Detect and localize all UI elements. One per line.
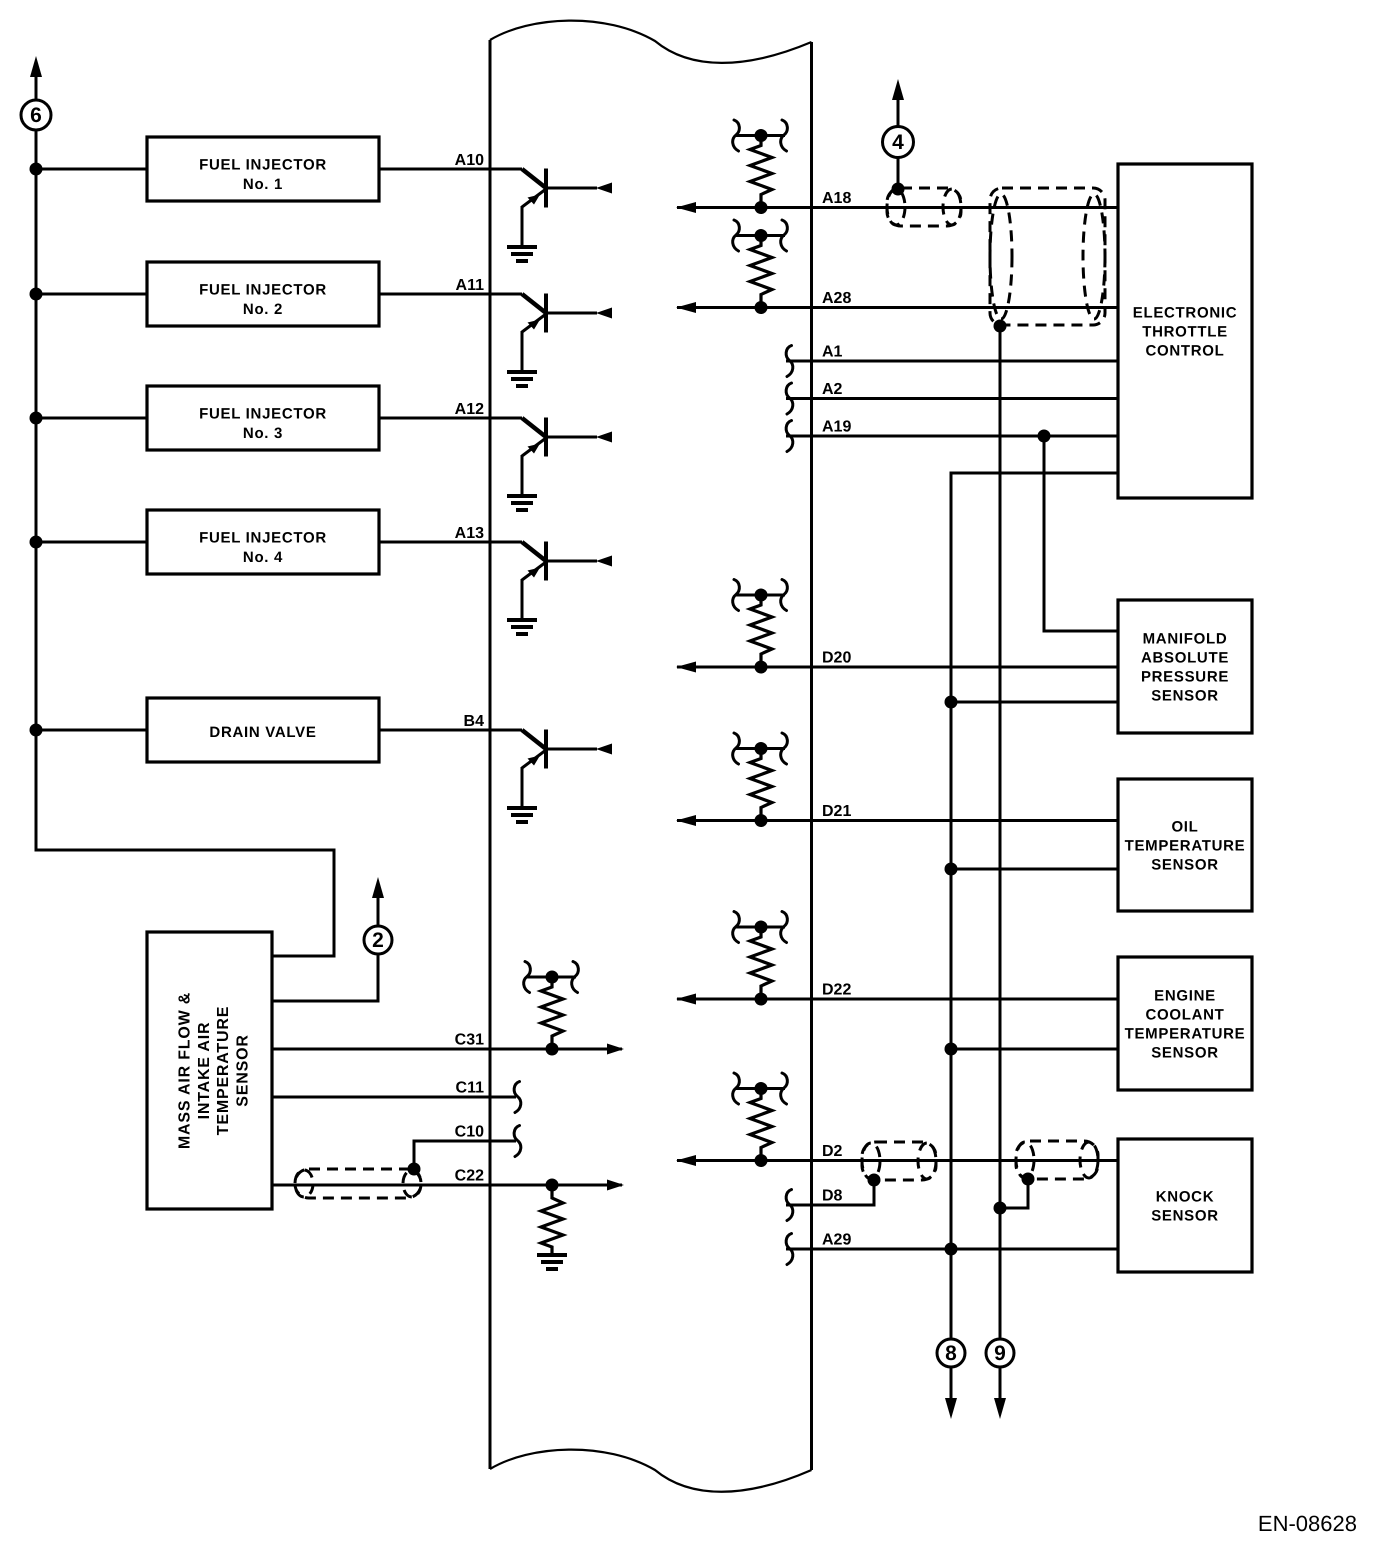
wire ECT sensor return: [951, 1048, 1118, 1051]
shield on wires A18/A28 at ETC: [990, 188, 1105, 325]
wire ETC ground lead elbow: [951, 473, 1118, 1339]
svg-text:FUEL INJECTOR: FUEL INJECTOR: [199, 157, 327, 174]
svg-text:SENSOR: SENSOR: [1151, 857, 1219, 874]
junction shield drain at node9 line: [994, 1202, 1007, 1215]
wire shield drain vertical to node 9: [999, 326, 1002, 1339]
junction shield to drain wire: [994, 320, 1007, 333]
shield on wire D2 left: [862, 1142, 936, 1180]
svg-text:C11: C11: [456, 1080, 485, 1097]
wire D22: [677, 998, 1118, 1001]
junction rail-drainvalve: [30, 724, 43, 737]
svg-text:INTAKE AIR: INTAKE AIR: [196, 1022, 213, 1120]
box oil temperature sensor: [1118, 779, 1252, 911]
svg-text:ENGINE: ENGINE: [1154, 988, 1216, 1005]
svg-text:9: 9: [994, 1342, 1006, 1365]
svg-text:C10: C10: [455, 1124, 484, 1141]
svg-text:C22: C22: [455, 1168, 484, 1185]
svg-text:A1: A1: [822, 344, 843, 361]
wire A28: [677, 306, 1118, 309]
transistor driver B4 with ground: [507, 730, 612, 823]
svg-text:TEMPERATURE: TEMPERATURE: [1125, 1026, 1246, 1043]
svg-text:No. 1: No. 1: [243, 176, 283, 193]
wire A19 branch down to MAP sensor: [1044, 436, 1118, 631]
svg-text:A29: A29: [822, 1232, 851, 1249]
svg-text:TEMPERATURE: TEMPERATURE: [215, 1006, 232, 1135]
shield on wire C22: [295, 1169, 421, 1198]
box electronic throttle control: [1118, 164, 1252, 498]
transistor driver A12 with ground: [507, 418, 612, 511]
junction OIL return: [945, 863, 958, 876]
junction knock shield: [1022, 1173, 1035, 1186]
node 9 circle: [986, 1339, 1014, 1367]
wire MAF to node 2: [272, 897, 378, 1001]
junction A29: [945, 1243, 958, 1256]
wire D2: [677, 1159, 1118, 1162]
ECM band torn top edge: [490, 21, 812, 63]
svg-text:No. 2: No. 2: [243, 301, 283, 318]
wire A2: [786, 397, 1118, 400]
box knock sensor: [1118, 1139, 1252, 1272]
resistor pull-up on D20: [733, 580, 788, 674]
svg-text:FUEL INJECTOR: FUEL INJECTOR: [199, 406, 327, 423]
wire left power rail: [36, 73, 334, 956]
svg-text:2: 2: [372, 929, 384, 952]
arrow left end A28: [676, 302, 696, 313]
box fuel injector no.1: [147, 137, 379, 201]
svg-text:6: 6: [30, 104, 42, 127]
node 4 circle: [883, 127, 914, 158]
svg-text:4: 4: [892, 131, 904, 154]
resistor pull-up on D2: [733, 1073, 788, 1167]
wire D21: [677, 819, 1118, 822]
svg-text:PRESSURE: PRESSURE: [1141, 669, 1229, 686]
wire rail to drain valve: [36, 729, 147, 732]
svg-text:D22: D22: [822, 982, 851, 999]
node 8 circle: [937, 1339, 965, 1367]
wire C11: [272, 1096, 516, 1099]
break symbol A2: [786, 383, 793, 414]
svg-text:D21: D21: [822, 803, 851, 820]
resistor pull-up on A18: [733, 120, 788, 214]
node 6 circle: [21, 100, 51, 130]
resistor pull-up on A28: [733, 220, 788, 314]
wire C31: [272, 1048, 622, 1051]
break symbol D8: [786, 1190, 793, 1221]
svg-text:FUEL INJECTOR: FUEL INJECTOR: [199, 530, 327, 547]
transistor driver A13 with ground: [507, 542, 612, 635]
svg-text:A12: A12: [455, 401, 484, 418]
svg-text:No. 4: No. 4: [243, 549, 283, 566]
svg-text:ABSOLUTE: ABSOLUTE: [1141, 650, 1229, 667]
wire C22: [272, 1184, 622, 1187]
wire fuel injector no.1 to transistor A10: [379, 168, 522, 171]
svg-text:SENSOR: SENSOR: [1151, 1045, 1219, 1062]
svg-text:CONTROL: CONTROL: [1145, 343, 1224, 360]
svg-text:D2: D2: [822, 1143, 843, 1160]
wire D20: [677, 666, 1118, 669]
svg-text:C31: C31: [455, 1032, 484, 1049]
svg-text:8: 8: [945, 1342, 957, 1365]
shield on wire D2 at knock sensor: [1016, 1141, 1098, 1179]
ECM band right edge: [810, 42, 813, 1470]
resistor pull-up on D21: [733, 733, 788, 827]
svg-text:A11: A11: [456, 277, 485, 294]
svg-text:A18: A18: [822, 190, 851, 207]
junction A19 to MAP branch: [1038, 430, 1051, 443]
ECM band torn bottom edge: [490, 1450, 812, 1492]
resistor on C31: [524, 962, 579, 1056]
wire A29: [786, 1248, 1118, 1251]
transistor driver A10 with ground: [507, 169, 612, 262]
node 2 circle: [364, 926, 392, 954]
svg-text:COOLANT: COOLANT: [1145, 1007, 1224, 1024]
break symbol A29: [786, 1234, 793, 1265]
wire knock shield to node 9 line: [1000, 1180, 1028, 1208]
svg-text:A28: A28: [822, 290, 851, 307]
svg-text:SENSOR: SENSOR: [1151, 688, 1219, 705]
wire rail to fuel injector no.3: [36, 417, 147, 420]
svg-text:KNOCK: KNOCK: [1156, 1189, 1215, 1206]
box engine coolant temperature sensor: [1118, 957, 1252, 1090]
svg-text:SENSOR: SENSOR: [234, 1034, 251, 1106]
wire node 8 arrow: [950, 1367, 953, 1400]
wire node 4 to A18 shield: [897, 96, 900, 188]
arrow up node 4: [892, 79, 904, 100]
junction rail-injector1: [30, 163, 43, 176]
svg-text:OIL: OIL: [1171, 819, 1198, 836]
shield on wire A18 small: [887, 188, 961, 226]
wire D8: [786, 1181, 874, 1205]
break symbol C11: [514, 1082, 521, 1113]
arrow up rail top: [30, 56, 42, 77]
box fuel injector no.3: [147, 386, 379, 450]
resistor C22 to ground: [537, 1179, 567, 1270]
junction D8-shield: [868, 1174, 881, 1187]
junction rail-injector4: [30, 536, 43, 549]
wire node 9 arrow: [999, 1367, 1002, 1400]
svg-text:FUEL INJECTOR: FUEL INJECTOR: [199, 282, 327, 299]
wire fuel injector no.2 to transistor A11: [379, 293, 522, 296]
svg-text:A19: A19: [822, 419, 851, 436]
junction node4-shield: [892, 183, 905, 196]
junction MAP return: [945, 696, 958, 709]
wire drain valve to transistor B4: [379, 729, 522, 732]
svg-text:ELECTRONIC: ELECTRONIC: [1133, 305, 1238, 322]
svg-text:MASS AIR FLOW &: MASS AIR FLOW &: [177, 992, 194, 1149]
arrow left end D2: [676, 1155, 696, 1166]
break symbol A19: [786, 421, 793, 452]
ECM band left edge: [489, 40, 492, 1469]
junction rail-injector2: [30, 288, 43, 301]
wire fuel injector no.3 to transistor A12: [379, 417, 522, 420]
box fuel injector no.4: [147, 510, 379, 574]
break symbol C10: [514, 1126, 521, 1157]
svg-text:TEMPERATURE: TEMPERATURE: [1125, 838, 1246, 855]
box manifold absolute pressure sensor: [1118, 600, 1252, 733]
svg-text:B4: B4: [464, 713, 485, 730]
transistor driver A11 with ground: [507, 294, 612, 387]
svg-text:MANIFOLD: MANIFOLD: [1143, 631, 1228, 648]
arrow up node 2: [372, 877, 384, 898]
wire rail to fuel injector no.1: [36, 168, 147, 171]
svg-text:DRAIN VALVE: DRAIN VALVE: [209, 724, 316, 741]
svg-text:EN-08628: EN-08628: [1258, 1511, 1357, 1536]
wire MAP sensor return: [951, 701, 1118, 704]
break symbol A1: [786, 346, 793, 377]
junction ECT return: [945, 1043, 958, 1056]
svg-text:SENSOR: SENSOR: [1151, 1208, 1219, 1225]
svg-text:THROTTLE: THROTTLE: [1142, 324, 1228, 341]
svg-text:A2: A2: [822, 381, 843, 398]
wire A19: [786, 435, 1118, 438]
junction rail-injector3: [30, 412, 43, 425]
svg-text:D8: D8: [822, 1188, 843, 1205]
junction C10-shield: [408, 1163, 421, 1176]
arrow left end A18: [676, 202, 696, 213]
resistor pull-up on D22: [733, 912, 788, 1006]
box mass air flow & intake air temperature sensor: [147, 932, 272, 1209]
wire A1: [786, 360, 1118, 363]
wire rail to fuel injector no.2: [36, 293, 147, 296]
svg-text:A13: A13: [455, 525, 484, 542]
box fuel injector no.2: [147, 262, 379, 326]
arrow left end D20: [676, 662, 696, 673]
arrow left end D22: [676, 994, 696, 1005]
svg-text:A10: A10: [455, 152, 484, 169]
svg-text:D20: D20: [822, 650, 851, 667]
svg-text:No. 3: No. 3: [243, 425, 283, 442]
wire A18: [677, 206, 1118, 209]
wire fuel injector no.4 to transistor A13: [379, 541, 522, 544]
wire rail to fuel injector no.4: [36, 541, 147, 544]
arrow left end D21: [676, 815, 696, 826]
box drain valve: [147, 698, 379, 762]
wire C10: [414, 1141, 516, 1169]
wire OIL sensor return: [951, 868, 1118, 871]
